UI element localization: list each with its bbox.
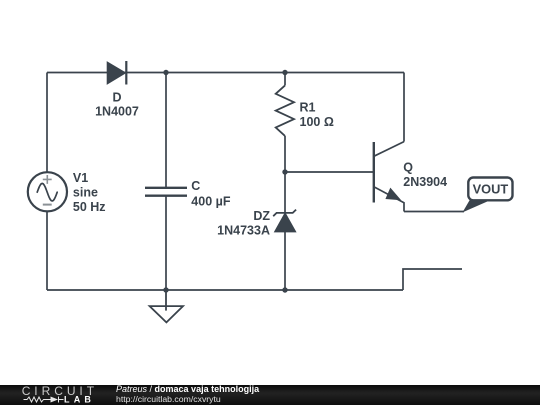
- net flag VOUT box: [468, 178, 512, 201]
- wire DZ top lead: [284, 172, 286, 213]
- resistor R1: [276, 85, 294, 135]
- svg-text:50 Hz: 50 Hz: [73, 200, 106, 214]
- zener diode DZ: [273, 210, 296, 232]
- node junction dot base: [282, 169, 287, 174]
- footer attribution line 1: [116, 384, 259, 394]
- wire emitter to VOUT: [404, 211, 464, 213]
- wire bottom rail: [47, 289, 403, 291]
- CircuitLab logo: [0, 384, 100, 405]
- wire V1 bottom lead: [46, 211, 48, 290]
- node junction dot top R1: [282, 70, 287, 75]
- node junction dot ground: [163, 287, 168, 292]
- svg-text:Q: Q: [403, 161, 413, 175]
- net flag VOUT tail: [463, 200, 490, 213]
- svg-text:DZ: DZ: [253, 209, 270, 223]
- node junction dot DZ bottom: [282, 287, 287, 292]
- svg-text:2N3904: 2N3904: [403, 175, 447, 189]
- diode D: [107, 61, 126, 85]
- wire output step: [403, 269, 462, 290]
- wire V1 top lead: [46, 73, 48, 173]
- ground: [150, 290, 183, 322]
- svg-text:VOUT: VOUT: [473, 182, 509, 197]
- svg-text:400 µF: 400 µF: [191, 194, 231, 208]
- voltage source V1: [28, 172, 67, 211]
- svg-text:R1: R1: [300, 101, 316, 115]
- wire capacitor bottom lead: [165, 196, 167, 290]
- wire capacitor top lead: [165, 73, 167, 188]
- svg-text:100 Ω: 100 Ω: [300, 115, 334, 129]
- node junction dot top C: [163, 70, 168, 75]
- svg-text:1N4733A: 1N4733A: [217, 224, 270, 238]
- wire R1 top lead: [284, 73, 286, 86]
- footer bar: [0, 385, 540, 405]
- wire R1 bottom lead: [284, 136, 286, 172]
- svg-text:1N4007: 1N4007: [95, 105, 139, 119]
- transistor Q: [374, 142, 404, 212]
- svg-text:LAB: LAB: [64, 395, 95, 405]
- footer url line 2: [116, 394, 221, 404]
- svg-text:C: C: [191, 179, 200, 193]
- wire DZ bottom lead: [284, 232, 286, 290]
- svg-text:D: D: [112, 91, 121, 105]
- wire top rail: [47, 72, 404, 74]
- svg-text:V1: V1: [73, 171, 88, 185]
- svg-text:sine: sine: [73, 186, 98, 200]
- capacitor C: [145, 188, 187, 196]
- wire base node to Q: [285, 171, 374, 173]
- wire collector lead: [403, 73, 405, 142]
